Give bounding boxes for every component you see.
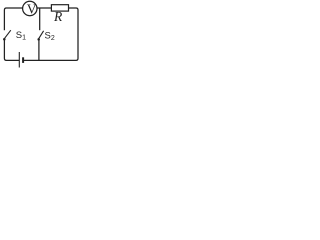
svg-text:V: V bbox=[27, 2, 37, 17]
svg-text:R: R bbox=[53, 9, 63, 24]
